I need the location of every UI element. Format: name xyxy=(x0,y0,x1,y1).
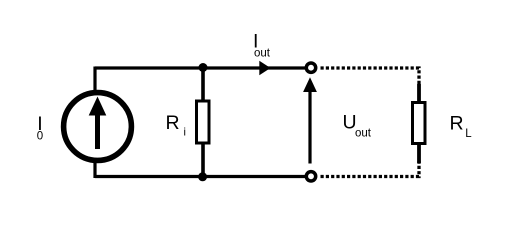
current source arrow xyxy=(89,97,107,150)
wire top horizontal (source node to output terminal) xyxy=(95,66,305,69)
svg-text:R: R xyxy=(166,112,180,134)
terminal top (open circle output terminal) xyxy=(306,63,315,72)
wire bottom horizontal xyxy=(95,175,305,178)
wire RL lead bottom xyxy=(417,144,421,164)
svg-text:0: 0 xyxy=(37,130,43,142)
voltage arrow Uout xyxy=(303,77,317,163)
label Iout xyxy=(253,31,271,60)
wire left vertical top (top wire to current source) xyxy=(93,67,96,94)
svg-text:i: i xyxy=(184,127,186,139)
label I0 xyxy=(37,113,43,142)
resistor Ri xyxy=(197,101,210,143)
wire dashed bottom (output terminal to load corner) xyxy=(321,161,420,177)
svg-text:R: R xyxy=(450,112,464,134)
wire dashed top (output terminal to load corner) xyxy=(321,68,420,85)
arrow Iout (current direction on top wire) xyxy=(259,61,270,75)
svg-text:out: out xyxy=(254,48,271,60)
current source I0 (circle symbol) xyxy=(64,93,132,161)
label Uout xyxy=(343,112,372,140)
wire RL lead top xyxy=(417,84,421,102)
label Ri xyxy=(166,112,186,139)
junction bottom node xyxy=(198,172,207,181)
terminal bottom (open circle output terminal) xyxy=(306,172,315,181)
svg-text:out: out xyxy=(355,127,372,139)
wire left vertical bottom (current source to bottom wire) xyxy=(93,160,96,178)
wire Ri branch vertical top xyxy=(201,68,205,101)
label RL xyxy=(450,112,473,140)
junction top node xyxy=(199,63,208,72)
resistor RL xyxy=(413,103,426,144)
wire Ri branch vertical bottom xyxy=(201,143,205,177)
svg-text:L: L xyxy=(465,128,472,140)
